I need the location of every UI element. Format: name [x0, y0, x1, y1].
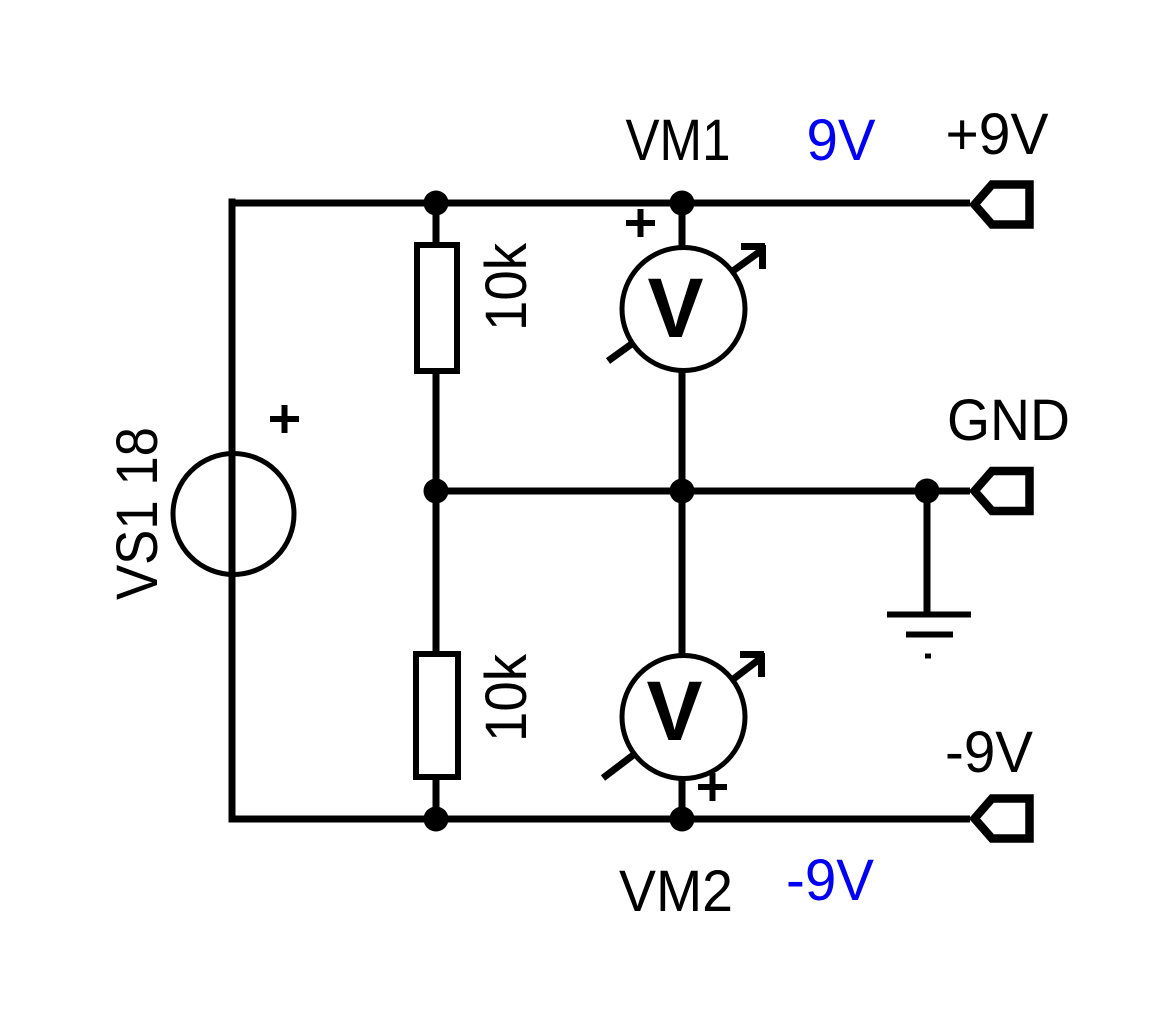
- voltage source VS1 body: [173, 454, 294, 575]
- wire ground stub: [924, 491, 931, 612]
- svg-text:V: V: [648, 261, 704, 355]
- junction node bottom resistor branch: [424, 807, 449, 832]
- voltage source VS1 plus polarity mark: [270, 405, 299, 433]
- svg-text:+9V: +9V: [946, 102, 1049, 167]
- voltmeter VM1 plus polarity mark: [626, 209, 655, 237]
- wire top rail from VS1 to +9V terminal: [232, 200, 970, 207]
- wire middle rail to GND terminal: [436, 488, 970, 495]
- svg-text:V: V: [647, 664, 703, 758]
- terminal -9V tag: [975, 799, 1030, 839]
- svg-text:9V: 9V: [807, 108, 876, 173]
- wire left vertical through VS1: [229, 199, 236, 823]
- junction node middle voltmeter branch: [670, 479, 695, 504]
- svg-text:10k: 10k: [474, 653, 539, 742]
- voltmeter VM2 plus polarity mark: [698, 773, 727, 801]
- voltmeter VM1 body: [622, 248, 745, 371]
- junction node middle resistor branch: [424, 479, 449, 504]
- voltmeter VM1 arrow: [608, 245, 765, 361]
- ground symbol: [887, 615, 971, 657]
- junction node top resistor branch: [424, 191, 449, 216]
- svg-text:-9V: -9V: [945, 720, 1033, 785]
- wire resistor branch vertical: [433, 203, 440, 819]
- wire voltmeter branch vertical: [679, 203, 686, 819]
- svg-text:10k: 10k: [474, 242, 539, 331]
- svg-text:VM1: VM1: [626, 108, 731, 173]
- resistor R2 body: [416, 654, 458, 777]
- junction node middle ground stub: [915, 479, 940, 504]
- terminal GND tag: [975, 471, 1030, 511]
- junction node top voltmeter branch: [670, 191, 695, 216]
- svg-text:-9V: -9V: [786, 848, 874, 913]
- junction node bottom voltmeter branch: [670, 807, 695, 832]
- resistor R1 body: [417, 245, 457, 371]
- voltmeter VM2 arrow: [603, 653, 764, 778]
- wire bottom rail from VS1 to -9V terminal: [232, 816, 970, 823]
- voltmeter VM2 body: [622, 656, 745, 779]
- svg-text:VS1 18: VS1 18: [105, 427, 170, 600]
- terminal +9V tag: [975, 185, 1030, 225]
- svg-text:VM2: VM2: [619, 859, 733, 924]
- svg-text:GND: GND: [947, 388, 1070, 453]
